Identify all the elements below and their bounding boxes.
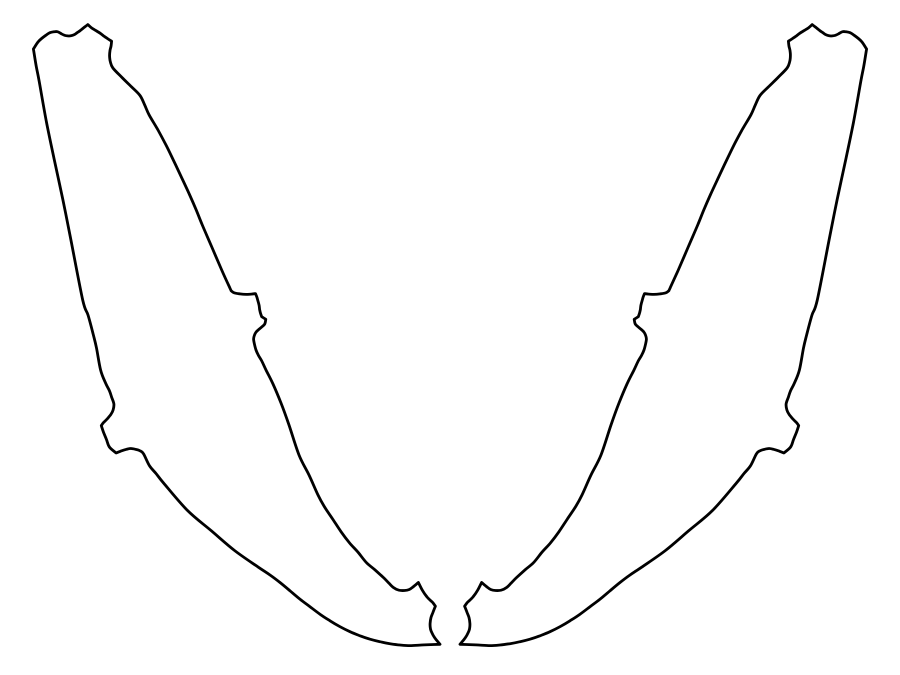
right template panel outline (mirror) [460,25,867,646]
left template panel outline [33,25,440,646]
